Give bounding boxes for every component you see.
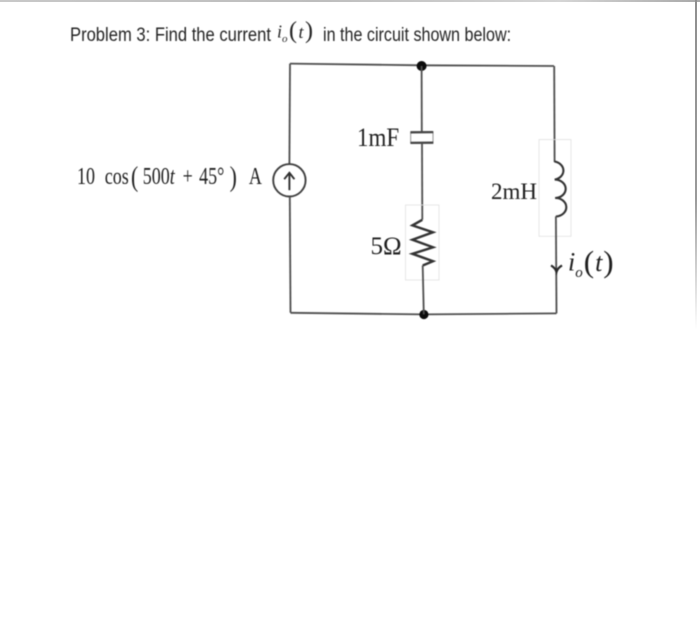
wire middle lower (resistor to bottom node) [423, 266, 424, 315]
output current label i_o(t) [568, 244, 614, 282]
wire left upper (corner to source) [288, 64, 291, 165]
wire middle upper (top node to capacitor) [421, 66, 423, 132]
current source circle [273, 164, 305, 196]
wire right lower (inductor to bottom corner) [555, 216, 558, 313]
current source arrow [284, 173, 294, 190]
wire bottom (left corner to right corner through bottom node) [291, 313, 557, 315]
inductor L coil (3 bumps) [554, 162, 566, 217]
source value label 10cos(500t+45deg) A [77, 161, 262, 194]
wire middle center (capacitor to resistor) [421, 144, 423, 220]
capacitor value label 1mF [357, 123, 399, 153]
inductor value label 2mH [491, 179, 537, 205]
resistor value label 5 ohm [371, 233, 402, 261]
resistor R faint box [406, 205, 440, 280]
wire right upper (top corner to inductor) [553, 66, 555, 162]
page right edge line [695, 0, 697, 330]
title math i_o(t) [277, 18, 313, 45]
title tail text [323, 25, 511, 47]
inductor L faint box [539, 140, 571, 237]
wire top (left corner to right corner through top node) [290, 64, 554, 66]
node A top junction dot [417, 61, 427, 71]
capacitor C bounding box [411, 132, 433, 143]
resistor R zigzag [412, 220, 433, 266]
output current arrow head on right wire [551, 265, 562, 272]
capacitor C plates [410, 132, 433, 143]
title: Problem 3: Find the current i_o(t) in the circuit shown below: [70, 25, 271, 47]
node B bottom junction dot [419, 310, 428, 319]
page top edge shadow [0, 0, 700, 2]
wire left lower (source to bottom corner) [289, 197, 292, 313]
